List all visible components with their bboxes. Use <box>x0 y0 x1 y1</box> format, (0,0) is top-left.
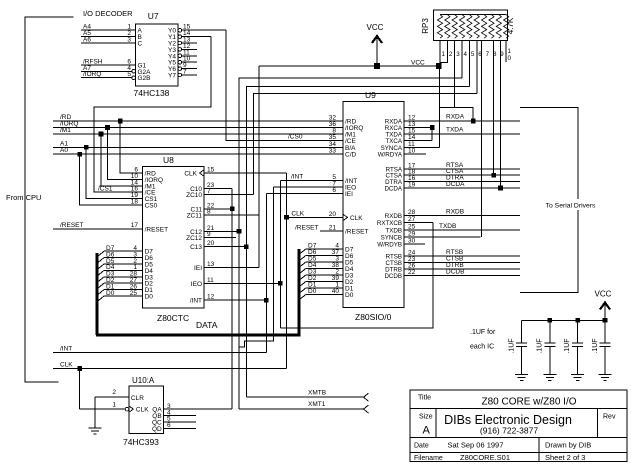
wire net /CS1 from U7 Y1 to U8 /CE <box>94 37 211 193</box>
svg-text:Drawn by DIB: Drawn by DIB <box>545 441 591 450</box>
wire pull-up jog to RXDA <box>439 107 473 121</box>
wire /IORQ drop to U8 pin 10 <box>108 128 143 180</box>
U7 pin 4 G2A input A7 <box>81 65 151 76</box>
svg-text:.1UF: .1UF <box>564 338 571 353</box>
U9 pin 5 /INT <box>280 174 357 186</box>
svg-text:RXDB: RXDB <box>446 209 464 216</box>
U10 pin 6 QD <box>152 422 196 433</box>
RP3 pin 4 wire <box>461 40 463 78</box>
svg-text:/RESET: /RESET <box>145 227 169 234</box>
U9 pin 38 data D4 <box>299 262 354 274</box>
bus DATA thick U8 side <box>96 253 99 335</box>
RP3 pin 5 wire <box>468 40 470 86</box>
svg-text:W/RDYB: W/RDYB <box>377 242 402 249</box>
svg-text:/CS0: /CS0 <box>288 134 303 141</box>
svg-text:DCDB: DCDB <box>446 268 464 275</box>
svg-text:7: 7 <box>486 51 490 58</box>
bracket To Serial Drivers <box>520 107 610 292</box>
junction CLK to U10 <box>77 366 82 371</box>
U7 pin 1 A input A4 <box>81 24 143 35</box>
wire A1 drop to U8 CS1 <box>86 147 142 198</box>
ground symbol under C4 <box>599 374 612 376</box>
svg-text:VCC: VCC <box>367 23 384 32</box>
svg-text:TXDA: TXDA <box>446 127 464 134</box>
svg-text:25: 25 <box>130 290 138 297</box>
RP3 pin 1 wire to VCC rail <box>439 40 441 66</box>
svg-text:DCDA: DCDA <box>446 181 465 188</box>
U9 pin 40 data D0 <box>299 288 354 300</box>
svg-text:/M1: /M1 <box>60 127 71 134</box>
wire net XMT1 to off-page <box>239 401 364 409</box>
svg-text:/CS1: /CS1 <box>98 186 113 193</box>
svg-text:25: 25 <box>408 223 416 230</box>
junction RXDA pull-up <box>471 119 476 124</box>
svg-text:A: A <box>423 425 431 437</box>
svg-text:Z80CORE.S01: Z80CORE.S01 <box>460 453 510 462</box>
wire riser U9 /INT down to cross link <box>279 181 281 329</box>
svg-text:Z80SIO/0: Z80SIO/0 <box>355 312 392 322</box>
junction RXCA tie <box>430 125 435 130</box>
svg-text:20: 20 <box>207 240 215 247</box>
svg-text:1: 1 <box>442 51 446 58</box>
svg-text:C13: C13 <box>190 244 202 251</box>
svg-text:CLR: CLR <box>131 395 144 402</box>
U7 pin 13 output Y2 <box>168 37 197 48</box>
wire CLK riser <box>286 173 288 369</box>
svg-text:IEO: IEO <box>191 281 202 288</box>
U8 pin 22 C11 <box>191 202 233 213</box>
U9 pin 20 CLK <box>287 210 364 222</box>
svg-text:4: 4 <box>464 51 468 58</box>
svg-text:17: 17 <box>131 222 139 229</box>
wire RP3 pin6 run to ZC10 <box>254 93 477 194</box>
U9 pin 27 RXTXCB <box>377 216 433 227</box>
svg-text:28: 28 <box>408 209 416 216</box>
junction /RD to U8 <box>118 119 123 124</box>
U7 pin 5 G2B input /IORQ <box>81 71 151 82</box>
bracket From CPU <box>6 17 73 382</box>
wire net A1 from CPU to U9 B/A <box>53 140 343 147</box>
svg-text:CS0: CS0 <box>145 203 158 210</box>
svg-text:33: 33 <box>329 148 337 155</box>
wire pull-up RXDA/SYNCA chain vertical <box>438 66 440 147</box>
svg-text:/RESET: /RESET <box>345 229 369 236</box>
U8 pin 9 ZC12 <box>186 231 236 242</box>
svg-text:each IC: each IC <box>470 344 494 351</box>
U8 pin 6 /RD <box>120 167 156 178</box>
wire net /RD from CPU to U9 <box>53 114 343 121</box>
U8 pin 20 C13 <box>190 240 246 251</box>
capacitor C2 .1UF <box>536 320 555 374</box>
U7 pin 9 output Y6 <box>168 62 197 73</box>
U9 pin 4 data D7 <box>299 243 354 255</box>
svg-text:9: 9 <box>207 231 211 238</box>
svg-text:ZC12: ZC12 <box>186 235 202 242</box>
wire RXTXCB riser to cross link <box>280 223 432 328</box>
junction A0 to U8 <box>77 152 82 157</box>
U10 pin 1 CLK <box>80 401 150 413</box>
svg-text:A0: A0 <box>60 147 68 154</box>
U8 pin 27 data D2 <box>97 277 153 289</box>
RP3 pin 9 wire to DCDA <box>500 40 502 188</box>
svg-text:D0: D0 <box>308 288 317 295</box>
connector XMT1 off-page arrow <box>364 405 369 413</box>
U8 pin 26 data D1 <box>97 283 153 295</box>
svg-text:SYNCB: SYNCB <box>381 234 402 241</box>
U9 pin 33 C/D <box>329 148 357 159</box>
svg-text:.1UF for: .1UF for <box>470 329 496 336</box>
svg-text:U7: U7 <box>148 11 159 21</box>
svg-text:11: 11 <box>207 277 214 284</box>
svg-text:RXTXCB: RXTXCB <box>377 220 402 227</box>
U8 pin 8 ZC11 <box>187 209 260 220</box>
U8 pin 13 IEI <box>194 261 259 272</box>
junction CLK at U9 pin 20 <box>284 215 289 220</box>
junction CTSA pull-up <box>491 173 496 178</box>
U9 pin 28 RXDB <box>385 209 520 220</box>
svg-text:/CE: /CE <box>345 138 357 145</box>
U9 pin 19 DCDA <box>384 182 520 193</box>
U9 pin 12 RXDA <box>385 115 520 126</box>
U8 pin 3 data D6 <box>97 251 153 263</box>
U8 pin 1 data D4 <box>97 264 153 276</box>
svg-text:/INT: /INT <box>291 174 303 181</box>
IC U7 74HC138 body <box>134 11 179 98</box>
svg-text:Rev: Rev <box>603 414 616 421</box>
U8 pin 21 C12 <box>190 225 239 236</box>
svg-text:Z80CTC: Z80CTC <box>157 313 189 323</box>
junction C12 trigger <box>237 229 242 234</box>
capacitor C3 .1UF <box>564 320 583 374</box>
junction VCC arrow on rail <box>374 63 380 69</box>
svg-text:5: 5 <box>471 51 475 58</box>
U9 pin 14 TXCA <box>385 134 432 145</box>
svg-text:CLK: CLK <box>184 171 197 178</box>
bus DATA thick U9 riser <box>297 249 300 336</box>
wire net A0 from CPU to U9 C/D <box>53 147 343 154</box>
U8 pin 19 CS1 <box>89 192 158 203</box>
U10 pin 3 QA <box>152 403 232 414</box>
wire VCC rail top <box>259 65 439 67</box>
RP3 pin 7 wire to SYNCB <box>481 40 483 237</box>
title block texts <box>414 395 616 463</box>
title block frame <box>410 390 627 461</box>
svg-text:To Serial Drivers: To Serial Drivers <box>546 203 596 210</box>
U9 pin 25 TXDB <box>385 223 520 234</box>
wire net /CS0 from U7 Y0 to U9 /CE <box>226 30 343 140</box>
power symbol VCC top <box>367 23 384 66</box>
U9 pin 32 /RD <box>329 115 357 126</box>
junction U8 IEO tap <box>278 281 283 286</box>
U9 pin 37 data D6 <box>299 249 354 261</box>
wire VCC drop left to U8 IEI pull-up <box>258 66 260 267</box>
ground symbol under C2 <box>543 374 556 376</box>
svg-text:IEI: IEI <box>194 265 202 272</box>
U9 pin 36 /IORQ <box>329 121 364 132</box>
U9 pin 1 data D1 <box>299 282 354 294</box>
junction VCC rail cap 4 <box>603 318 608 323</box>
U9 pin 13 RXCA <box>385 121 432 132</box>
svg-text:10: 10 <box>408 148 416 155</box>
wire A0 drop to U8 CS0 <box>80 154 143 205</box>
U8 pin 25 data D0 <box>97 290 153 302</box>
svg-text:RXDA: RXDA <box>446 114 465 121</box>
svg-text:VCC: VCC <box>595 290 612 299</box>
U8 pin 15 CLK <box>184 167 286 178</box>
svg-text:Filename: Filename <box>414 455 443 462</box>
U10 pin 2 CLR <box>95 389 144 402</box>
svg-text:From CPU: From CPU <box>6 193 41 202</box>
svg-text:1: 1 <box>112 401 116 408</box>
svg-text:/IORQ: /IORQ <box>83 71 101 78</box>
svg-text:Z80 CORE w/Z80 I/O: Z80 CORE w/Z80 I/O <box>481 397 576 408</box>
svg-text:18: 18 <box>131 199 139 206</box>
svg-text:D0: D0 <box>145 294 154 301</box>
svg-text:3: 3 <box>127 37 131 44</box>
svg-text:40: 40 <box>332 288 340 295</box>
svg-text:21: 21 <box>329 225 337 232</box>
svg-text:.1UF: .1UF <box>592 338 599 353</box>
wire net XMTB to off-page <box>246 390 364 398</box>
IC U10:A 74HC393 body <box>123 376 164 447</box>
U7 pin 7 output Y7 <box>168 69 197 80</box>
note .1UF for each IC <box>470 329 496 351</box>
U10 pin 5 QC <box>152 416 196 427</box>
U7 pin 15 output Y0 <box>168 24 226 35</box>
junction RP3 pin1 VCC <box>436 63 442 69</box>
U9 pin 23 CTSB <box>385 256 520 267</box>
U7 pin 12 output Y3 <box>168 43 197 54</box>
U9 pin 26 DTRB <box>385 263 520 274</box>
U9 pin 22 DCDB <box>384 269 520 280</box>
wire staircase U9 IEO down <box>239 187 273 347</box>
svg-text:5: 5 <box>127 71 131 78</box>
svg-text:2: 2 <box>449 51 453 58</box>
U9 pin 16 DTRA <box>385 175 520 186</box>
wire VCC rail right <box>522 319 605 321</box>
U7 pin 10 output Y5 <box>168 56 197 67</box>
U9 pin 21 /RESET <box>320 225 369 236</box>
svg-text:D0: D0 <box>106 290 115 297</box>
svg-text:DATA: DATA <box>196 320 218 330</box>
svg-text:IEI: IEI <box>345 191 353 198</box>
svg-text:/INT: /INT <box>190 298 202 305</box>
IC U8 Z80CTC body <box>143 155 204 323</box>
RP3 pin 10 stub <box>505 40 507 62</box>
U8 pin 18 CS0 <box>80 199 158 210</box>
svg-text:1: 1 <box>508 48 512 55</box>
svg-text:Title: Title <box>418 395 431 402</box>
junction /IORQ to U8 <box>105 125 110 130</box>
U8 pin 14 /M1 <box>100 179 156 190</box>
svg-text:/RESET: /RESET <box>60 222 84 229</box>
svg-text:74HC138: 74HC138 <box>134 88 170 98</box>
U8 pin 10 /IORQ <box>107 173 163 184</box>
wire CLK drop to U10 <box>79 369 81 410</box>
wire riser U9 IEI down to /INT bottom run <box>265 193 267 352</box>
svg-text:XMT1: XMT1 <box>308 401 326 408</box>
U8 pin 16 /CE <box>131 186 156 197</box>
svg-text:DCDA: DCDA <box>384 186 402 193</box>
svg-text:.1UF: .1UF <box>509 338 516 353</box>
U8 pin 7 ZC10 <box>186 188 253 199</box>
U9 pin 35 /CE <box>329 134 357 145</box>
svg-text:4.7K: 4.7K <box>506 17 515 34</box>
svg-text:QD: QD <box>152 426 162 433</box>
svg-text:19: 19 <box>408 182 416 189</box>
U10 pin 4 QB <box>152 409 196 420</box>
svg-text:CLK: CLK <box>291 210 304 217</box>
svg-text:W/RDYA: W/RDYA <box>378 152 403 159</box>
U9 pin 10 W/RDYA <box>378 148 426 159</box>
svg-text:/INT: /INT <box>60 346 72 353</box>
U9 pin 15 TXDA <box>385 128 520 139</box>
svg-text:U8: U8 <box>163 155 174 165</box>
U7 pin 2 B input A5 <box>81 30 142 41</box>
svg-text:Date: Date <box>414 443 429 450</box>
svg-text:CLK: CLK <box>60 362 73 369</box>
wire net /INT bottom run <box>53 346 266 353</box>
svg-text:27: 27 <box>408 216 416 223</box>
svg-text:/RESET: /RESET <box>295 225 319 232</box>
junction VCC rail cap 3 <box>575 318 580 323</box>
connector XMTB off-page arrow <box>364 393 369 401</box>
svg-text:RP3: RP3 <box>421 18 430 34</box>
wire net /IORQ from CPU to U9 <box>53 121 343 128</box>
svg-text:D0: D0 <box>345 292 354 299</box>
svg-text:14: 14 <box>408 134 416 141</box>
svg-text:Sheet 2 of 3: Sheet 2 of 3 <box>545 453 585 462</box>
svg-text:Y7: Y7 <box>168 73 176 80</box>
U7 pin 3 C input A6 <box>81 37 143 48</box>
U9 pin 6 IEI <box>266 187 353 198</box>
U8 pin 28 data D3 <box>97 271 153 283</box>
svg-text:20: 20 <box>329 211 337 218</box>
wire RP3 pin4 run to C12 and XMT1 <box>239 78 462 409</box>
svg-text:CLK: CLK <box>350 215 363 222</box>
wire net CLK bottom run <box>53 362 287 369</box>
U9 pin 11 SYNCA <box>381 141 440 152</box>
U9 pin 2 data D3 <box>299 269 354 281</box>
power symbol VCC right <box>595 290 612 321</box>
svg-text:CLK: CLK <box>136 407 149 414</box>
RP3 pin 2 wire jog to VCC junction <box>440 40 447 62</box>
junction A1 to U8 <box>84 145 89 150</box>
svg-text:13: 13 <box>207 261 215 268</box>
svg-text:29: 29 <box>408 230 416 237</box>
U7 pin 11 output Y4 <box>168 49 197 60</box>
junction /INT branch at U8 <box>264 298 269 303</box>
wire RP3 pin5 run to C13 and XMTB <box>246 87 469 398</box>
svg-text:35: 35 <box>329 134 337 141</box>
ground symbol below U10 CLR <box>89 397 102 434</box>
svg-text:U9: U9 <box>365 90 376 100</box>
svg-text:6: 6 <box>167 422 171 429</box>
svg-text:6: 6 <box>332 187 336 194</box>
wire /RD drop to U8 pin 6 <box>120 121 142 173</box>
svg-text:30: 30 <box>408 238 416 245</box>
U8 pin 4 data D7 <box>97 245 153 257</box>
U9 pin 30 W/RDYB <box>377 238 425 249</box>
wire baud clock A vertical C10-C11-QA <box>231 189 233 410</box>
svg-text:12: 12 <box>207 294 215 301</box>
svg-text:2: 2 <box>112 389 116 396</box>
svg-text:I/O DECODER: I/O DECODER <box>83 9 133 18</box>
svg-text:0: 0 <box>508 55 512 62</box>
U7 pin 6 G1 input /RFSH <box>81 58 147 69</box>
svg-text:RXDB: RXDB <box>385 213 402 220</box>
svg-text:Size: Size <box>419 414 433 421</box>
svg-text:U10:A: U10:A <box>132 376 155 385</box>
svg-text:TXDB: TXDB <box>439 223 456 230</box>
resistor pack RP3 4.7K body <box>421 10 515 40</box>
U9 pin 3 data D5 <box>299 256 354 268</box>
svg-text:(916) 722-3877: (916) 722-3877 <box>480 426 538 436</box>
RP3 pin 8 wire to CTSA <box>493 40 495 175</box>
wire net /M1 from CPU to U9 <box>53 127 343 134</box>
svg-text:C/D: C/D <box>345 152 357 159</box>
wire RXCA-TXCA tie <box>431 128 433 141</box>
IC U9 Z80SIO/0 body <box>343 90 404 322</box>
ground symbol under C3 <box>571 374 584 376</box>
ground symbol under C1 <box>515 374 528 376</box>
junction C13 trigger <box>244 244 249 249</box>
svg-text:A6: A6 <box>83 37 91 44</box>
RP3 pin 6 wire <box>476 40 478 93</box>
svg-text:ZC11: ZC11 <box>187 213 203 220</box>
U9 pin 17 RTSA <box>386 162 520 173</box>
U8 pin 11 IEO <box>191 277 281 288</box>
wire net /RESET from CPU to U8 <box>53 222 143 229</box>
capacitor C4 .1UF <box>592 320 611 374</box>
wire /M1 drop to U8 pin 14 <box>101 134 143 186</box>
svg-text:Sat Sep 06 1997: Sat Sep 06 1997 <box>448 441 504 450</box>
junction VCC rail cap 2 <box>548 318 553 323</box>
svg-text:7: 7 <box>207 188 211 195</box>
svg-text:C: C <box>138 41 143 48</box>
U7 pin 14 output Y1 <box>168 30 211 41</box>
junction /M1 to U8 <box>99 132 104 137</box>
svg-text:VCC: VCC <box>411 60 425 67</box>
svg-text:G2B: G2B <box>138 75 151 82</box>
U8 pin 2 data D5 <box>97 258 153 270</box>
svg-text:8: 8 <box>207 209 211 216</box>
svg-text:TXDB: TXDB <box>385 227 402 234</box>
U9 pin 7 IEO <box>273 180 356 191</box>
svg-text:15: 15 <box>207 167 215 174</box>
svg-text:74HC393: 74HC393 <box>123 437 159 447</box>
junction DCDA pull-up <box>498 186 503 191</box>
svg-text:XMTB: XMTB <box>308 390 326 397</box>
U9 pin 24 RTSB <box>386 250 520 261</box>
capacitor C1 .1UF <box>509 320 528 374</box>
svg-text:3: 3 <box>456 51 460 58</box>
RP3 pin 3 wire pull-up tap <box>454 40 456 107</box>
junction C11 baud clock <box>230 207 235 212</box>
U9 pin 18 CTSA <box>385 169 520 180</box>
svg-text:7: 7 <box>183 69 187 76</box>
svg-text:TXCA: TXCA <box>385 138 402 145</box>
svg-text:22: 22 <box>408 269 416 276</box>
U9 pin 29 SYNCB <box>381 230 481 241</box>
U8 pin 12 /INT <box>190 294 267 305</box>
svg-text:DCDB: DCDB <box>384 273 402 280</box>
svg-text:ZC10: ZC10 <box>186 192 202 199</box>
bus DATA thick bottom run <box>96 333 299 336</box>
U8 pin 23 C10 <box>190 182 232 193</box>
U9 pin 39 data D2 <box>299 275 354 287</box>
U8 pin 17 /RESET <box>131 222 168 234</box>
